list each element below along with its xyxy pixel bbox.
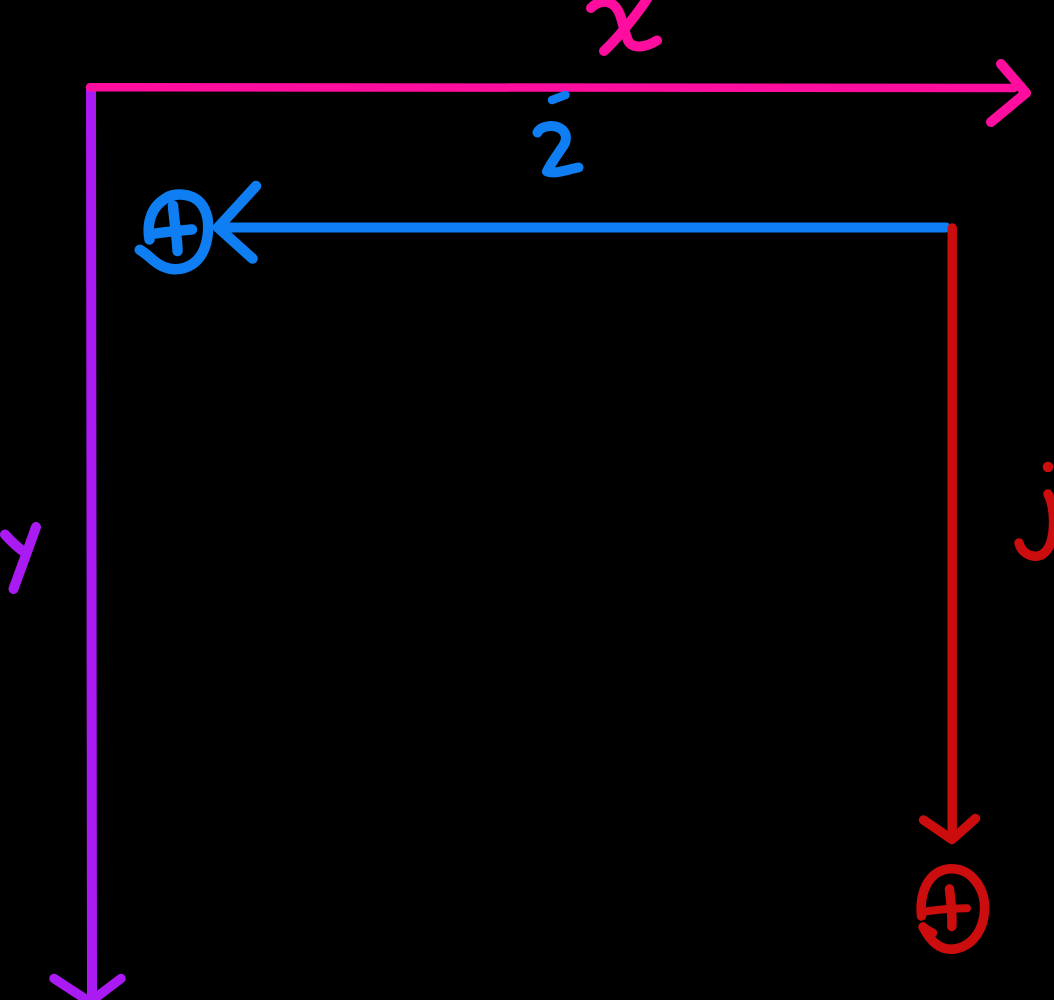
label y <box>5 527 36 589</box>
circled plus blue (into page symbol) <box>140 195 208 270</box>
i body <box>538 126 579 172</box>
y axis arrow (purple) <box>54 90 121 1000</box>
wire i shaft <box>223 223 946 233</box>
wire y shaft <box>91 90 92 995</box>
plus horizontal <box>156 230 193 234</box>
plus vertical <box>173 206 178 252</box>
plus vertical <box>950 889 952 927</box>
label x <box>591 0 657 51</box>
x arrowhead <box>991 64 1026 122</box>
wire j shaft <box>948 228 957 838</box>
plus horizontal <box>925 908 967 911</box>
wire x shaft <box>90 83 1014 92</box>
i dot <box>552 95 566 100</box>
label i (blue) <box>538 95 579 172</box>
label j (red) <box>1019 462 1054 557</box>
vector j arrow (red, pointing down) <box>924 228 976 840</box>
circled plus red <box>921 869 985 949</box>
j dot <box>1043 462 1054 473</box>
x axis arrow (pink) <box>90 64 1026 122</box>
y arrowhead <box>54 979 121 1000</box>
vector i arrow (blue, pointing left) <box>218 186 946 259</box>
i arrowhead <box>218 186 256 259</box>
j arrowhead <box>924 819 976 840</box>
j stem <box>1019 494 1054 556</box>
